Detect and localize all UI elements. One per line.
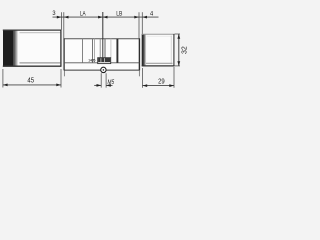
svg-text:LB: LB [116, 10, 122, 17]
svg-text:M5: M5 [108, 79, 115, 86]
svg-text:4: 4 [150, 10, 153, 17]
svg-text:29: 29 [158, 77, 165, 86]
svg-text:3: 3 [52, 10, 55, 17]
svg-text:32: 32 [181, 46, 188, 54]
svg-text:1405: 1405 [88, 59, 95, 63]
svg-text:45: 45 [27, 75, 34, 84]
svg-text:LA: LA [80, 10, 86, 17]
